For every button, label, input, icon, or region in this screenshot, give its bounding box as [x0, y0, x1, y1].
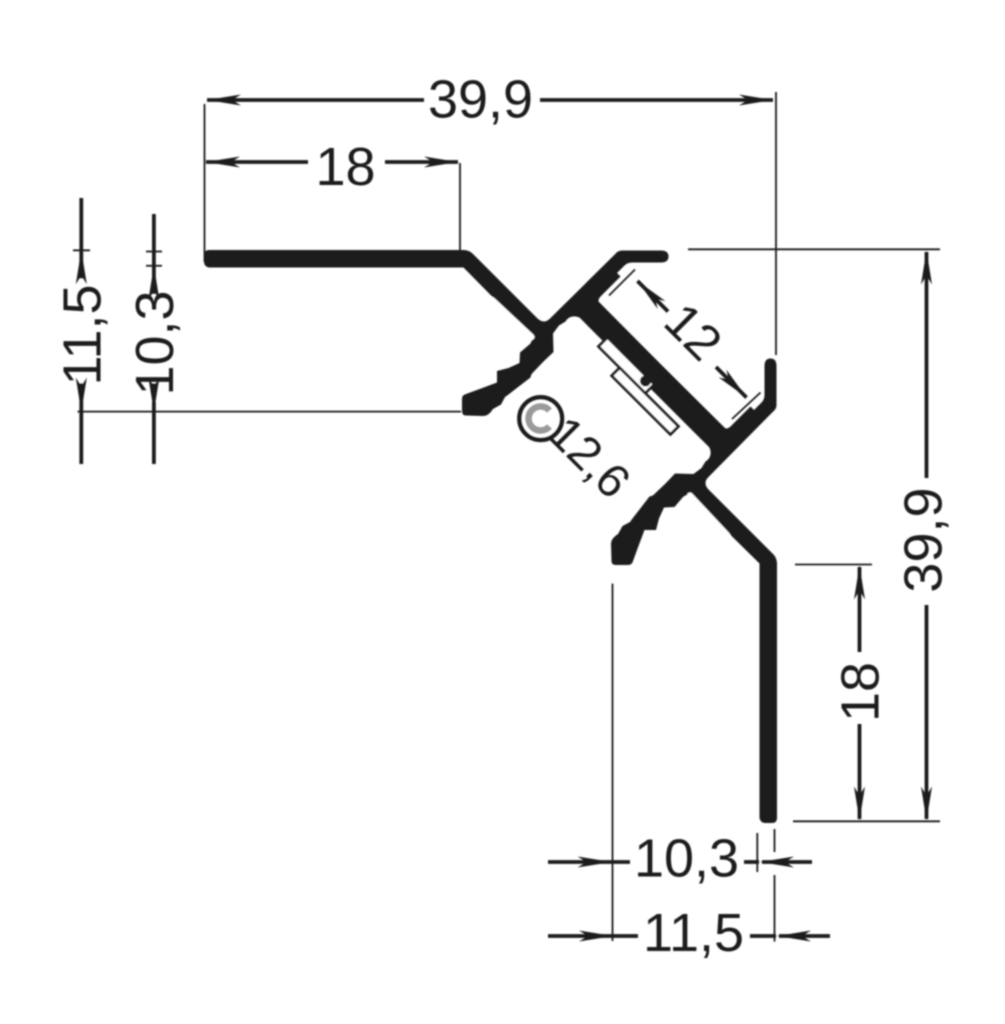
right 39.9	[925, 252, 929, 478]
bottom flange outer ext, dashed pieces	[774, 829, 776, 852]
right 18	[858, 567, 862, 652]
svg-text:39,9: 39,9	[894, 487, 954, 592]
svg-text:11,5: 11,5	[52, 284, 112, 385]
svg-text:10,3: 10,3	[634, 829, 739, 889]
lower-right half (mirror about x+y=1027)	[578, 300, 777, 823]
bottom 11.5	[579, 931, 613, 942]
right 39.9 bottom ref	[793, 820, 940, 822]
top-left vertical ext (flange left end)	[204, 104, 206, 262]
top 39.9	[207, 95, 241, 106]
right 39.9	[921, 251, 932, 285]
bottom 10.3	[548, 860, 630, 864]
left 11.5	[79, 198, 83, 278]
12 dim ext lines (45deg)	[609, 270, 635, 296]
top 18	[206, 157, 240, 168]
left 11.5 : down-arrow at top, up-arrow at bottom	[76, 250, 87, 284]
bottom 10.3 : arrows outside pointing inwards	[578, 857, 612, 868]
svg-text:18: 18	[831, 662, 891, 722]
upper-left half: flange, channel, plaster leg	[204, 250, 727, 449]
bottom 11.5	[548, 934, 638, 938]
top 39.9	[207, 98, 424, 102]
LED strip rectangles on channel back	[599, 338, 679, 435]
top 18 right ext	[459, 163, 461, 262]
svg-text:11,5: 11,5	[643, 903, 744, 963]
arrowheads	[76, 95, 932, 942]
left dim ticks	[73, 249, 90, 251]
svg-text:39,9: 39,9	[428, 70, 533, 130]
left 10.3	[152, 214, 156, 290]
left foot horizontal ref line	[78, 411, 462, 413]
copyright symbol	[519, 397, 562, 440]
svg-text:10,3: 10,3	[125, 290, 185, 395]
svg-text:18: 18	[315, 137, 375, 197]
bottom foot vertical ref line	[612, 584, 614, 941]
left 10.3	[148, 266, 159, 300]
bottom 10.3 ext (flange inner face)	[756, 833, 758, 872]
right 18	[854, 566, 865, 600]
right 18 top ref	[795, 564, 872, 566]
top 39.9 right ext (flange outer face up)	[775, 92, 777, 355]
small bump on strip	[640, 376, 651, 387]
12 dim	[634, 277, 666, 309]
top 18	[206, 160, 308, 164]
12 dim line pieces	[638, 281, 669, 312]
right 39.9 top ref	[688, 248, 940, 250]
